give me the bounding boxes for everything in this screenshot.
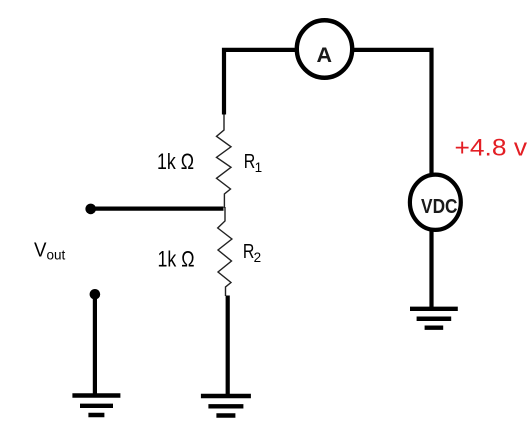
wire Vout horizontal <box>91 207 224 211</box>
svg-text:VDC: VDC <box>421 195 458 218</box>
VDC source circle <box>410 175 461 230</box>
svg-text:+4.8 v: +4.8 v <box>455 134 528 161</box>
ground left <box>72 396 120 416</box>
wire top-left horizontal and left vertical <box>224 50 296 115</box>
svg-text:R: R <box>244 150 256 173</box>
wire VDC bottom vertical <box>429 230 433 309</box>
svg-text:1k Ω: 1k Ω <box>157 149 194 174</box>
node Vout dot <box>85 204 96 215</box>
svg-text:out: out <box>47 248 66 263</box>
node dot lower left <box>90 289 101 300</box>
svg-text:2: 2 <box>254 250 262 265</box>
wire below lower-left dot <box>93 294 97 395</box>
svg-text:1k Ω: 1k Ω <box>158 247 195 272</box>
svg-text:1: 1 <box>255 160 263 175</box>
ground right <box>410 309 458 328</box>
ammeter U1 circle <box>297 20 352 78</box>
wire top-right horizontal and right vertical <box>353 50 432 173</box>
wire R2 bottom vertical <box>226 296 230 396</box>
ground middle <box>201 396 251 416</box>
svg-text:V: V <box>34 238 47 261</box>
resistor R1 <box>217 115 232 209</box>
svg-text:A: A <box>317 43 333 67</box>
resistor R2 <box>218 207 232 296</box>
